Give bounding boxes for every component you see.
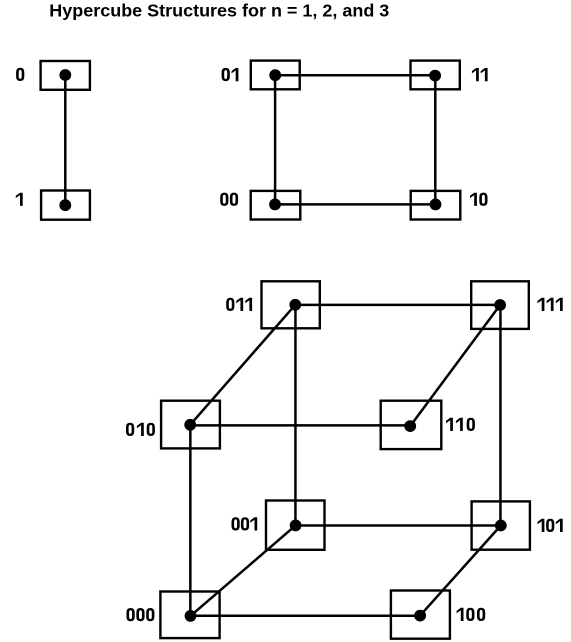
node 101 box bbox=[472, 501, 530, 549]
node 000 dot bbox=[185, 610, 197, 622]
node 110 dot bbox=[404, 420, 416, 432]
label 01 bbox=[222, 68, 239, 81]
edge 01-11 bbox=[275, 74, 435, 77]
node 1 box bbox=[41, 191, 90, 220]
label 00 bbox=[220, 193, 238, 206]
node 101 dot bbox=[495, 520, 507, 532]
edge 01-00 bbox=[274, 75, 277, 204]
edge 00-10 bbox=[275, 203, 436, 206]
node 00 dot bbox=[269, 199, 281, 211]
node 11 dot bbox=[429, 70, 441, 82]
node 000 box bbox=[160, 592, 219, 639]
label 10 bbox=[470, 193, 488, 206]
label 1 bbox=[16, 193, 23, 206]
label 0 bbox=[16, 68, 24, 81]
node 00 box bbox=[251, 191, 301, 220]
node 110 box bbox=[381, 401, 442, 449]
node 111 box bbox=[471, 281, 529, 329]
edge 011-111 bbox=[295, 304, 500, 307]
title: Hypercube Structures for n = 1, 2, and 3 bbox=[49, 0, 389, 20]
label 11 bbox=[472, 68, 488, 81]
node 01 dot bbox=[269, 69, 281, 81]
label 100 bbox=[457, 608, 486, 621]
label 010 bbox=[126, 423, 155, 436]
node 0 box bbox=[41, 61, 90, 90]
node 010 dot bbox=[184, 419, 196, 431]
edge 010-110 bbox=[190, 424, 410, 427]
node 10 dot bbox=[430, 199, 442, 211]
node 011 box bbox=[262, 281, 320, 328]
edge 111-101 bbox=[499, 305, 502, 526]
label 110 bbox=[446, 418, 475, 431]
label 101 bbox=[538, 519, 563, 532]
node 01 box bbox=[251, 61, 300, 90]
edge 0-1 bbox=[64, 75, 67, 205]
node 10 box bbox=[411, 191, 461, 220]
edge 11-10 bbox=[434, 76, 437, 205]
node 0 dot bbox=[59, 69, 71, 81]
node 111 dot bbox=[494, 299, 506, 311]
edge 010-011 bbox=[190, 305, 295, 425]
svg-text:Hypercube Structures for n = 1: Hypercube Structures for n = 1, 2, and 3 bbox=[49, 0, 389, 20]
edge 001-101 bbox=[296, 524, 501, 527]
label 000 bbox=[127, 608, 155, 621]
node 11 box bbox=[411, 61, 460, 90]
node 011 dot bbox=[289, 299, 301, 311]
edge 000-100 bbox=[191, 615, 421, 618]
edge 100-101 bbox=[420, 526, 501, 616]
label 111 bbox=[538, 298, 563, 311]
node 100 dot bbox=[414, 610, 426, 622]
node 001 box bbox=[266, 501, 325, 550]
edge 110-111 bbox=[410, 305, 500, 426]
node 001 dot bbox=[290, 520, 302, 532]
node 010 box bbox=[161, 401, 220, 449]
edge 010-000 bbox=[189, 425, 192, 616]
edge 000-001 bbox=[191, 525, 296, 616]
edge 011-001 bbox=[294, 305, 297, 526]
label 001 bbox=[232, 517, 258, 530]
label 011 bbox=[226, 298, 252, 311]
node 100 box bbox=[391, 591, 450, 639]
node 1 dot bbox=[59, 199, 71, 211]
